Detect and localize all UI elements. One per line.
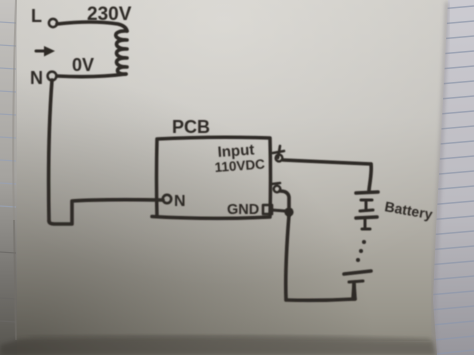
svg-text:L: L [31,6,42,26]
svg-text:N: N [30,68,43,88]
svg-text:N: N [174,193,186,210]
svg-text:GND: GND [227,202,259,218]
svg-text:230V: 230V [87,4,132,25]
svg-text:0V: 0V [72,55,94,75]
svg-text:PCB: PCB [172,117,210,137]
